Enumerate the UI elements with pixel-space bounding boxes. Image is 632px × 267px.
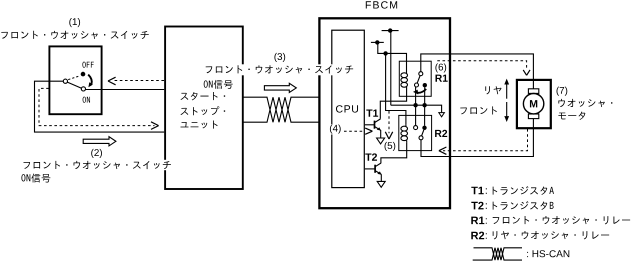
relay R1 contact NO dot: [423, 83, 427, 87]
wire T1 collector to R1 coil: [380, 87, 406, 119]
FBCM label: [366, 1, 397, 8]
rear direction label: [485, 86, 501, 94]
front direction label: [460, 106, 497, 114]
switch common contact: [63, 79, 67, 83]
CPU box: [332, 30, 365, 187]
power stub B: [371, 40, 384, 44]
motor bottom brush: [528, 114, 538, 119]
twisted pair HS-CAN wire A: [242, 97, 318, 122]
relay R1 contact NC circle: [415, 83, 419, 87]
wire R1 NC throw to R2: [415, 87, 417, 126]
legend T1 designator: [471, 187, 486, 195]
relay R2 contact arm: [422, 130, 424, 136]
switch ON contact: [81, 87, 85, 91]
relay R1 designator: [435, 75, 447, 82]
legend R2 designator: [471, 232, 487, 240]
label (3) front washer switch text: [206, 65, 353, 73]
wire R1 common to motor top: [421, 54, 534, 89]
relay R1 coil: [401, 70, 408, 87]
switch OFF contact dot: [81, 72, 86, 77]
relay R2 designator: [435, 130, 447, 137]
start-stop unit box: [165, 27, 243, 190]
washer motor box: [517, 80, 551, 128]
rear direction arrow: [504, 79, 509, 99]
transistor T2 designator: [365, 153, 377, 160]
junction dot D1: [413, 103, 417, 107]
legend HS-CAN twisted pair symbol: [473, 248, 522, 260]
wire stub B to R1 coil top: [378, 42, 407, 70]
wire J1 to R2 coil top: [386, 53, 406, 124]
unit text line3: [181, 121, 218, 129]
unit text line2: [181, 106, 226, 115]
label (3) text white backing: [205, 64, 355, 75]
outline arrow (3): [264, 83, 296, 92]
outline arrow (2): [83, 137, 116, 146]
FBCM box: [319, 18, 450, 208]
relay R2 box: [399, 115, 432, 150]
label (6) callout number: [435, 63, 446, 72]
relay R1 contact common circle: [419, 72, 423, 76]
legend T1 text: [493, 186, 554, 195]
wire T1 emitter to ground: [380, 130, 382, 138]
power stub A: [382, 28, 399, 32]
wire switch common loop: [35, 81, 165, 132]
label (4) callout number: [330, 125, 341, 134]
switch arm (ON position): [67, 82, 81, 88]
twisted pair HS-CAN wire B: [242, 97, 318, 122]
label (7) callout number: [557, 87, 568, 96]
label (4) white backing: [328, 124, 343, 134]
wire T2 emitter to ground: [380, 174, 382, 181]
dashed arrow (4) into T1: [344, 128, 372, 134]
relay R1 contact arm: [417, 76, 420, 84]
ground T1: [377, 138, 385, 144]
transistor T2: [375, 163, 381, 175]
dashed signal arrow into switch: [108, 77, 164, 85]
legend HS-CAN text: [527, 250, 569, 257]
dashed rear-drive signal to motor: [437, 61, 530, 76]
wire R1 NO throw to R2: [424, 87, 426, 126]
ground arrow small: [439, 113, 445, 117]
relay R1 box: [399, 61, 431, 96]
CPU label: [336, 105, 358, 112]
ground T2: [377, 181, 385, 187]
legend R1 designator: [471, 217, 487, 225]
label (3) ON signal text: [204, 80, 233, 89]
label (2) text white backing: [22, 160, 174, 170]
switch box S1: [49, 46, 101, 114]
label (3) callout number: [274, 53, 285, 62]
motor top brush: [528, 89, 538, 94]
legend T2 text: [493, 201, 554, 210]
wire CPU to T1 base: [365, 124, 375, 126]
unit text line1: [181, 92, 226, 100]
dashed ON-signal path to unit: [39, 88, 159, 129]
relay R2 contact NO dot: [422, 126, 426, 130]
dashed arrow (5): [385, 111, 392, 139]
switch movement curved arrow: [88, 75, 93, 88]
relay R2 coil: [401, 124, 408, 142]
switch ON label: [83, 97, 90, 103]
label (2) front washer switch text: [24, 161, 171, 169]
legend R2 text: [493, 231, 609, 239]
label (2) callout number: [91, 149, 102, 158]
relay R1 movement arrow: [413, 89, 426, 95]
wire R2 common to motor bottom: [421, 119, 533, 157]
motor M letter: [530, 100, 537, 107]
switch OFF label: [82, 62, 93, 68]
switch dashed arm to OFF: [68, 76, 80, 80]
relay R2 contact NC circle: [414, 126, 418, 130]
wire switch ON output: [85, 89, 164, 91]
label (7) motor text: [558, 112, 585, 120]
legend R1 text: [493, 216, 630, 224]
label (1) callout number: [69, 18, 80, 27]
transistor T1 designator: [366, 109, 378, 116]
motor circle: [523, 94, 543, 114]
wire stub A to contact rail: [391, 31, 442, 113]
label (1) front washer switch text: [1, 31, 148, 39]
wire T2 collector to R2 coil: [381, 142, 407, 163]
front direction arrow: [504, 102, 509, 122]
junction dot D2: [422, 103, 426, 107]
wire CPU to T2 base: [365, 168, 375, 170]
relay R2 contact common circle: [419, 136, 423, 140]
junction J1 dot: [383, 51, 387, 55]
label (2) ON signal text: [21, 174, 50, 183]
dashed front-return signal from motor: [439, 129, 528, 154]
label (7) washer text: [558, 99, 612, 107]
label (5) callout number: [385, 142, 396, 151]
legend T2 designator: [471, 202, 486, 210]
transistor T1: [375, 119, 381, 131]
